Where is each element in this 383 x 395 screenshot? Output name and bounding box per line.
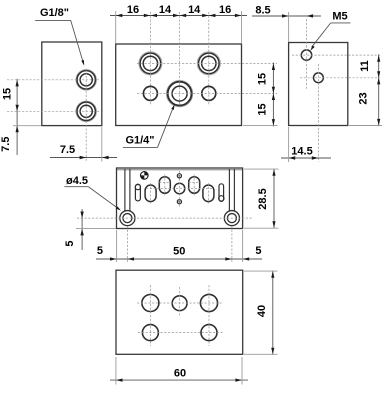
extension line front view top right: [244, 168, 279, 170]
svg-text:G1/8": G1/8": [40, 7, 69, 19]
centerline row 2 top view: [137, 92, 277, 94]
hole right middle row (top view): [202, 86, 216, 100]
port P center circle (front view): [174, 183, 185, 194]
centerline horizontal pattern: [146, 187, 213, 189]
svg-text:16: 16: [127, 4, 139, 16]
centerline inner slot right: [193, 175, 195, 196]
centerline vertical side ports: [85, 69, 87, 162]
centerline vertical lower hole right view: [317, 64, 319, 162]
centerline row 1 bottom view: [137, 302, 223, 304]
hole in left slot top: [135, 185, 140, 190]
centerline row 2 bottom view: [138, 332, 223, 334]
extension line front view bottom right: [244, 227, 279, 229]
port G1/8 top-left (top view): [139, 52, 162, 75]
dimension 11 and 23 right side: [378, 54, 380, 126]
svg-text:14.5: 14.5: [291, 145, 312, 157]
centerline inner slot left: [164, 175, 166, 196]
front view top edge chamfer line: [117, 169, 242, 171]
svg-text:7.5: 7.5: [60, 144, 75, 156]
centerline vertical pattern center: [179, 171, 181, 207]
centerline mounting holes row: [77, 217, 252, 219]
extension line right edge of side view: [101, 127, 103, 162]
port G1/8 lower (side view): [76, 101, 97, 122]
dimension 5 vertical left of front view: [81, 209, 83, 250]
centerline row 1 top view: [137, 62, 277, 64]
centerline column 2 bottom view: [179, 287, 181, 317]
centerline column 1 top view: [149, 12, 151, 105]
leader line G1/4: [158, 108, 174, 148]
mounting hole right o4.5 (front view): [224, 211, 239, 226]
hole left middle row (top view): [143, 86, 157, 100]
centerline below right mounting hole: [231, 226, 233, 262]
port slot outer-left (front view): [145, 185, 156, 202]
centerline column 1 bottom view: [149, 285, 151, 346]
front view body: [117, 168, 243, 229]
svg-text:5: 5: [97, 245, 103, 257]
dimension chain 16 14 14 16 line: [110, 15, 247, 17]
extension line top view bottom right: [243, 125, 278, 127]
centerline horizontal upper port: [7, 79, 99, 81]
svg-text:16: 16: [219, 4, 231, 16]
svg-text:G1/4": G1/4": [125, 135, 154, 147]
dimension 28.5 right of front view: [273, 169, 275, 229]
mounting hole left o4.5 (front view): [120, 211, 135, 226]
centerline horizontal M5: [292, 54, 380, 56]
extension line top view left edge: [115, 11, 117, 43]
centerline vertical M5: [306, 19, 308, 89]
svg-text:8.5: 8.5: [255, 4, 270, 16]
svg-text:50: 50: [173, 246, 185, 258]
svg-text:15: 15: [256, 103, 268, 115]
dimension 40 right of bottom view: [272, 271, 274, 355]
extension line front view bottom left: [76, 228, 116, 230]
port bottom view top-left: [142, 295, 159, 312]
extension line bottom view bottom right: [244, 353, 278, 355]
svg-text:5: 5: [255, 245, 261, 257]
dimension 8.5 top right: [252, 15, 321, 17]
centerline column 3 top view: [208, 12, 210, 105]
leader line M5: [312, 23, 331, 47]
extension line right view left edge bottom: [288, 127, 290, 162]
extension line front view right edge down: [242, 230, 244, 262]
groove left (front view): [124, 169, 126, 211]
svg-text:60: 60: [174, 368, 186, 380]
extension line bottom view left edge down: [115, 357, 117, 385]
dimension 15 (side view left): [16, 79, 18, 155]
extension line bottom view right edge down: [241, 357, 243, 385]
dimension 14.5 below right view: [281, 157, 331, 159]
svg-text:ø4.5: ø4.5: [66, 175, 88, 187]
slot far left (front view): [135, 184, 140, 201]
tapped hole M5 (right view): [301, 50, 311, 60]
port slot B inner-right (front view): [189, 177, 200, 194]
svg-text:14: 14: [159, 4, 172, 16]
svg-text:23: 23: [358, 92, 370, 104]
centerline outer slot left: [150, 183, 152, 204]
left side view body: [42, 42, 102, 126]
port G1/8 upper (side view): [76, 70, 97, 91]
port slot outer-right (front view): [203, 185, 214, 202]
port G1/8 top-right (top view): [197, 52, 220, 75]
groove right (front view): [228, 169, 230, 211]
top view body: [116, 44, 242, 126]
svg-text:7.5: 7.5: [0, 137, 12, 152]
svg-text:M5: M5: [332, 10, 347, 22]
svg-text:40: 40: [256, 305, 268, 317]
orientation pin checkered (front view): [141, 172, 149, 180]
extension line top view right edge: [241, 11, 243, 43]
centerline horizontal lower hole right view: [300, 77, 380, 79]
small hole above center (front view): [177, 174, 181, 178]
dimension 60 below bottom view: [110, 379, 248, 381]
port slot A inner-left (front view): [159, 177, 170, 194]
extension line front view left edge down: [116, 230, 118, 262]
extension line right view bottom edge: [349, 125, 382, 127]
small hole below center (front view): [177, 200, 181, 204]
port bottom view top-right: [200, 294, 217, 311]
extension line bottom edge left: [13, 125, 41, 127]
leader line o4.5: [88, 187, 119, 210]
dimension 7.5 vertical (side view left): [16, 126, 19, 133]
svg-text:5: 5: [64, 240, 76, 246]
dimension 7.5 horizontal (below side view): [50, 157, 117, 159]
port bottom view bottom-left: [142, 325, 158, 341]
port bottom view bottom-right: [201, 325, 217, 341]
centerline below left mounting hole: [126, 226, 128, 262]
bottom view body: [116, 270, 243, 354]
extension line right view left edge top: [288, 12, 290, 42]
centerline outer slot right: [207, 183, 209, 204]
svg-text:15: 15: [256, 73, 268, 85]
svg-text:14: 14: [188, 4, 201, 16]
extension line bottom view top right: [244, 270, 278, 272]
slot far right (front view): [219, 184, 224, 202]
dimension 15 15 right of top view: [272, 63, 274, 127]
port G1/4 center (top view): [166, 80, 192, 106]
leader line G1/8: [35, 19, 70, 21]
hole lower (right view): [314, 73, 324, 83]
right side view body: [289, 43, 348, 126]
hole in right slot bottom: [219, 196, 224, 201]
svg-text:28.5: 28.5: [257, 188, 269, 209]
centerline column 3 bottom view: [208, 285, 210, 346]
centerline column 2 top view: [179, 12, 181, 107]
dimension chain 5 50 5 below front view: [96, 258, 262, 260]
svg-text:11: 11: [359, 60, 371, 72]
centerline horizontal lower port: [7, 110, 99, 112]
port bottom view top-middle: [172, 296, 187, 311]
svg-text:15: 15: [2, 88, 14, 100]
